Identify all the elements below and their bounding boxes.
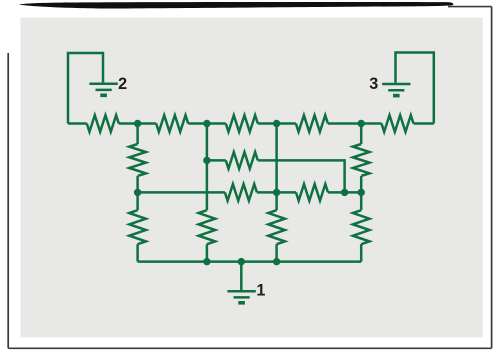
ground symbol 1 (227, 291, 255, 303)
resistor R6 (129, 144, 146, 176)
resistor R13 (268, 210, 285, 244)
node bottom-rail ground (238, 258, 245, 265)
black top swoosh (19, 2, 453, 8)
wire ground-1 stem (240, 262, 243, 290)
wire column-1 lower lead (136, 176, 139, 192)
wire ground-3 branch (top rail right end up and over) (396, 53, 434, 124)
wire column-4 lower lead (360, 176, 363, 192)
node top-rail x2 (203, 120, 210, 127)
resistor R3 (226, 115, 258, 132)
wire top rail segment B (119, 122, 156, 125)
wire column-2 bottom lead (206, 244, 209, 261)
node bottom-rail x2 (203, 258, 210, 265)
frame border bottom (8, 347, 491, 349)
wire row B segment B (257, 191, 296, 194)
wire top rail segment C (188, 122, 226, 125)
node row-A x2 (203, 157, 210, 164)
wire row A right lead with corner down (258, 160, 345, 192)
wire top rail segment A (68, 122, 87, 125)
wire column-1 bottom lead (136, 244, 139, 261)
wire row B segment A (138, 191, 225, 194)
wire column-4 below row B (360, 192, 363, 210)
node row-B x5 (358, 189, 365, 196)
resistor R9 (225, 184, 257, 201)
node row-B x1 (134, 189, 141, 196)
resistor R5 (382, 115, 414, 132)
resistor R14 (353, 210, 370, 244)
wire top rail segment F (414, 122, 434, 125)
wire column-2 top to row A (206, 124, 209, 161)
node bottom-rail x3 (273, 258, 280, 265)
resistor R7 (353, 144, 370, 176)
wire ground-2 branch (top rail left end up and over) (68, 53, 103, 124)
wire column-3 top to row B (275, 124, 278, 193)
wire column-4 upper lead (360, 124, 363, 145)
svg-text:2: 2 (118, 75, 127, 93)
frame border left (7, 53, 9, 348)
wire row A left lead (207, 159, 226, 162)
svg-text:1: 1 (256, 282, 265, 300)
wire column-1 upper lead (136, 124, 139, 145)
resistor R2 (156, 115, 188, 132)
node top-rail x1 (134, 120, 141, 127)
svg-text:3: 3 (369, 75, 378, 93)
resistor R10 (296, 184, 328, 201)
wire column-3 bottom lead (275, 244, 278, 261)
wire column-4 bottom lead (360, 244, 363, 261)
wire row B segment C (328, 191, 361, 194)
wire column-2 row A to resistor (206, 160, 209, 210)
resistor R4 (296, 115, 328, 132)
resistor R1 (87, 115, 119, 132)
ground symbol 2 (89, 84, 117, 96)
wire top rail segment E (328, 122, 382, 125)
wire column-3 below row B (275, 192, 278, 210)
resistor R12 (199, 210, 216, 244)
wire bottom rail (138, 260, 362, 263)
resistor R11 (129, 210, 146, 244)
frame border right (491, 7, 493, 349)
wire top rail segment D (258, 122, 296, 125)
ground symbol 3 (382, 84, 410, 96)
frame border top (448, 6, 492, 8)
node row-B x3 (273, 189, 280, 196)
node top-rail x3 (273, 120, 280, 127)
node top-rail x5 (358, 120, 365, 127)
node row-B x4 (341, 189, 348, 196)
wire column-1 below row B (136, 192, 139, 210)
resistor R8 (226, 152, 258, 169)
